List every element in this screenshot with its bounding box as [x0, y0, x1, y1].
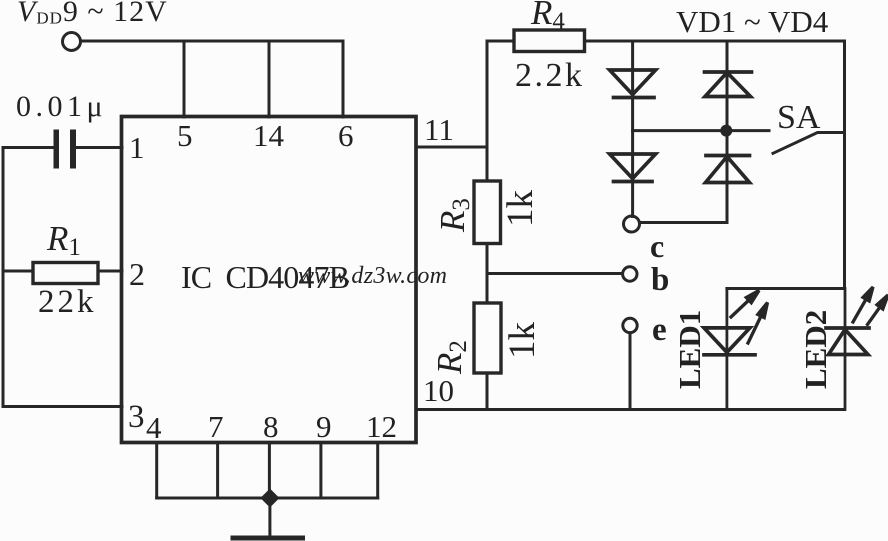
svg-text:VD1 ~ VD4: VD1 ~ VD4 — [676, 4, 829, 39]
svg-text:2.2k: 2.2k — [515, 57, 585, 94]
LED LED1 — [704, 289, 755, 410]
wire R2 bottom — [486, 373, 489, 410]
wire pin4 stub — [155, 443, 158, 498]
wire pin3 — [3, 405, 122, 408]
wire pin9 stub — [319, 443, 322, 498]
svg-text:4: 4 — [146, 410, 162, 445]
wire pin8 stub — [268, 443, 271, 498]
wire cap left — [3, 146, 54, 149]
wire R1 right to pin2 — [98, 270, 122, 273]
node b terminal — [623, 267, 637, 281]
power terminal VDD — [63, 33, 81, 51]
resistor R3 — [474, 181, 501, 244]
wire bottom pin bus — [157, 497, 378, 500]
wire R4 column — [486, 41, 489, 181]
wire c to bridge — [640, 221, 728, 224]
wire pin14 stub — [268, 41, 271, 117]
svg-text:c: c — [650, 228, 664, 264]
diode VD4 — [706, 156, 750, 183]
LED LED2 — [826, 289, 869, 410]
wire pin12 stub — [376, 443, 379, 498]
svg-text:22k: 22k — [38, 284, 97, 320]
wire diode column left — [631, 41, 634, 217]
wire cap right to pin1 — [76, 146, 122, 149]
resistor R2 — [474, 303, 501, 373]
svg-text:9: 9 — [316, 409, 332, 444]
svg-text:5: 5 — [177, 118, 193, 153]
ground — [233, 536, 303, 541]
svg-text:11: 11 — [424, 112, 454, 147]
switch SA blade — [773, 133, 845, 154]
wire pin7 stub — [216, 443, 219, 498]
svg-text:7: 7 — [208, 409, 224, 444]
LED1 arrows — [731, 291, 768, 344]
svg-text:8: 8 — [263, 409, 279, 444]
wire node b — [487, 272, 623, 275]
svg-text:2: 2 — [129, 256, 145, 292]
wire bridge middle row — [633, 129, 769, 132]
resistor R4 — [514, 30, 585, 52]
wire R1 left — [3, 270, 33, 273]
wire right bus — [843, 41, 846, 289]
svg-text:12: 12 — [366, 409, 397, 444]
svg-text:0.01μ: 0.01μ — [16, 90, 107, 123]
wire R4 left — [487, 40, 514, 43]
svg-text:3: 3 — [128, 399, 145, 435]
svg-text:14: 14 — [253, 118, 285, 153]
svg-text:SA: SA — [777, 99, 821, 136]
IC U1 CD4047B box — [122, 117, 417, 443]
svg-text:1k: 1k — [502, 322, 543, 360]
svg-text:6: 6 — [338, 118, 354, 153]
svg-text:b: b — [651, 262, 669, 298]
svg-text:1k: 1k — [500, 190, 541, 228]
wire VDD supply — [81, 40, 343, 43]
svg-text:LED2: LED2 — [798, 310, 833, 389]
node junction dot — [720, 125, 732, 137]
wire pin11 — [416, 146, 487, 149]
wire pin5 stub — [183, 41, 186, 117]
svg-text:www.dz3w.com: www.dz3w.com — [298, 263, 447, 289]
LED2 arrows — [853, 287, 888, 325]
capacitor C1 0.01u plates — [54, 130, 77, 169]
wire R3 to R2 — [486, 244, 489, 304]
wire pin6 stub — [342, 41, 345, 117]
svg-text:e: e — [652, 312, 667, 348]
svg-text:LED1: LED1 — [672, 310, 707, 389]
wire LED top link — [727, 287, 845, 290]
wire left vertical — [2, 148, 5, 407]
wire R4 right bus — [585, 40, 845, 43]
wire bottom bus pin10 — [416, 408, 845, 411]
svg-text:1: 1 — [129, 130, 145, 165]
node c terminal — [624, 216, 640, 232]
node ground junction — [260, 489, 279, 508]
wire ground stem — [268, 498, 271, 535]
svg-text:10: 10 — [423, 373, 454, 408]
diode VD2 — [610, 154, 656, 182]
node e terminal — [623, 318, 637, 332]
wire diode column right — [726, 41, 729, 223]
wire e column — [629, 333, 632, 410]
diode VD3 — [705, 72, 752, 97]
diode VD1 — [610, 70, 656, 98]
resistor R1 — [33, 263, 98, 284]
